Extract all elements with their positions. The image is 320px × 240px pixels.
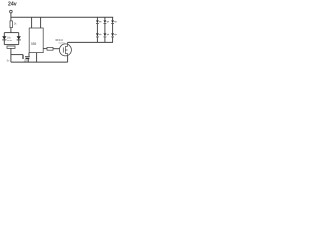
zener D1: [2, 36, 6, 40]
transistor Q1: [59, 44, 71, 56]
wire U1 pin 1: [36, 53, 38, 63]
wire U1 pin 8: [31, 17, 33, 28]
wire terminal to resistor: [10, 13, 12, 21]
capacitor C1 polarized: [17, 36, 21, 40]
wire right branch: [18, 33, 20, 45]
capacitor C4 polarized: [25, 57, 30, 60]
LED string 1: [96, 17, 101, 42]
wire Q1 drain: [67, 42, 69, 44]
wire C2 to ground bus: [10, 48, 12, 62]
svg-text:zener: zener: [7, 39, 13, 42]
resistor R2: [47, 47, 53, 50]
wire R1 to rail: [10, 28, 12, 33]
wire LED return bus: [68, 41, 113, 43]
op-amp U1 555 box: [29, 28, 43, 53]
wire string1 top: [96, 17, 98, 20]
wire top supply bus: [11, 16, 113, 18]
resistor R1: [10, 21, 12, 28]
svg-text:24v: 24v: [8, 1, 17, 7]
LED string 2: [104, 17, 109, 42]
LED D4: [104, 20, 107, 23]
capacitor C3: [22, 55, 24, 59]
wire branch to C3: [11, 54, 23, 56]
LED D3: [96, 33, 99, 36]
wire string3 bottom: [112, 37, 114, 43]
wire U1 pin 3: [43, 48, 47, 50]
wire upper rail: [4, 32, 18, 34]
LED D5: [104, 33, 107, 36]
terminal T1: [10, 10, 13, 13]
wire string2 top: [104, 17, 106, 20]
wire C4 to ground bus: [27, 59, 29, 62]
wire Q1 source to ground: [67, 56, 69, 62]
wire string3 top: [112, 17, 114, 20]
wire string2 mid2: [104, 37, 106, 43]
wire string1 mid: [96, 24, 98, 34]
wire ground bus: [11, 61, 68, 63]
wire string2 mid: [104, 24, 106, 34]
wire U1 pin 4: [40, 17, 42, 28]
wire R2 to gate: [53, 48, 59, 50]
wire string3 mid: [112, 24, 114, 34]
LED string 3: [111, 17, 116, 42]
background: [0, 0, 120, 80]
LED D7: [111, 33, 114, 36]
capacitor C2: [7, 46, 15, 48]
LED D6: [111, 20, 114, 23]
wire lower rail: [4, 44, 18, 46]
wire left branch: [3, 33, 5, 45]
wire string1 bottom: [96, 37, 98, 43]
LED D2: [96, 20, 99, 23]
wire U1 pin 5: [28, 53, 30, 57]
svg-text:555: 555: [31, 42, 37, 46]
